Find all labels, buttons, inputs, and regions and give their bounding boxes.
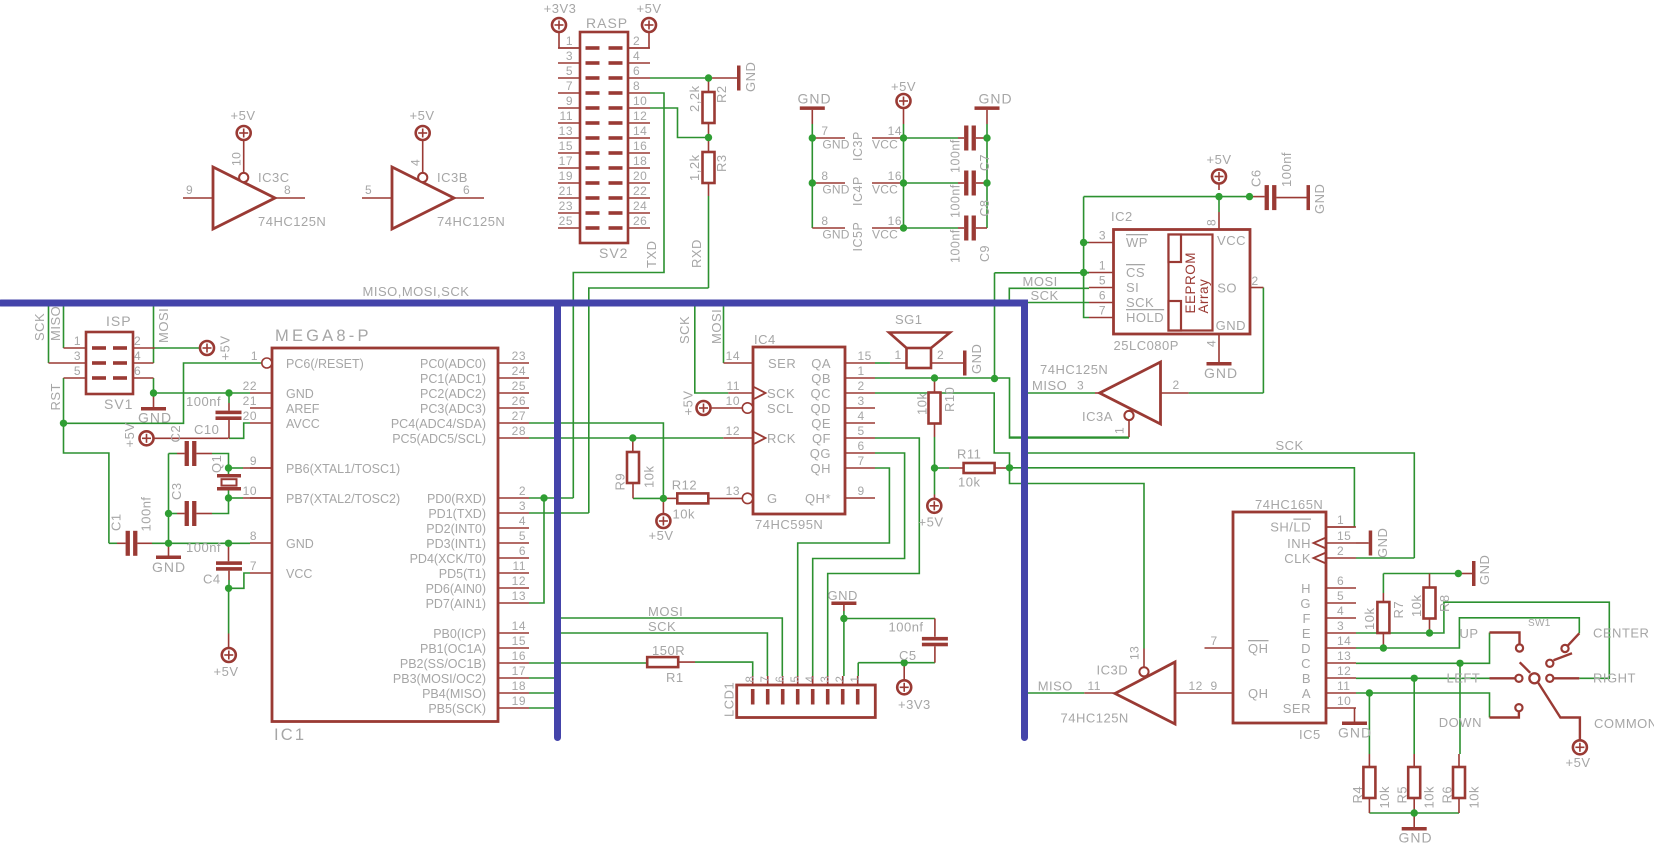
svg-text:Q1: Q1 [209, 455, 224, 473]
svg-text:6: 6 [134, 364, 141, 378]
svg-text:7: 7 [858, 454, 865, 468]
svg-text:4: 4 [519, 514, 526, 528]
svg-text:IC3D: IC3D [1097, 663, 1129, 678]
svg-text:+3V3: +3V3 [544, 1, 577, 16]
svg-text:R11: R11 [957, 447, 981, 462]
svg-text:PC0(ADC0): PC0(ADC0) [420, 357, 486, 371]
svg-text:SCK: SCK [1126, 295, 1154, 310]
svg-text:2: 2 [134, 334, 141, 348]
svg-text:+5V: +5V [218, 336, 233, 361]
svg-text:1,2k: 1,2k [687, 154, 702, 181]
svg-text:3: 3 [820, 676, 832, 683]
svg-text:C9: C9 [978, 245, 992, 262]
svg-text:3: 3 [1337, 619, 1344, 633]
svg-text:100nf: 100nf [186, 540, 221, 555]
svg-text:C8: C8 [978, 200, 992, 217]
svg-text:+5V: +5V [214, 664, 239, 679]
svg-text:C2: C2 [168, 425, 183, 443]
svg-text:12: 12 [1337, 664, 1351, 678]
svg-text:11: 11 [727, 379, 740, 393]
svg-text:4: 4 [409, 159, 423, 166]
svg-text:5: 5 [1337, 589, 1344, 603]
svg-text:13: 13 [726, 484, 740, 498]
svg-text:+5V: +5V [1207, 152, 1232, 167]
svg-text:PB6(XTAL1/TOSC1): PB6(XTAL1/TOSC1) [286, 462, 400, 476]
svg-text:WP: WP [1126, 235, 1148, 250]
svg-text:R12: R12 [672, 478, 697, 493]
svg-text:26: 26 [633, 214, 647, 228]
svg-text:C: C [1301, 656, 1311, 671]
svg-text:4: 4 [858, 409, 865, 423]
svg-text:100nf: 100nf [949, 139, 963, 173]
svg-text:2: 2 [1337, 544, 1344, 558]
svg-text:10: 10 [243, 484, 257, 498]
svg-text:R5: R5 [1395, 786, 1410, 804]
svg-text:25: 25 [559, 214, 573, 228]
svg-text:8: 8 [821, 214, 828, 228]
svg-text:PC3(ADC3): PC3(ADC3) [420, 402, 486, 416]
svg-text:24: 24 [512, 364, 526, 378]
svg-text:IC3P: IC3P [851, 131, 865, 161]
svg-text:SCK: SCK [1276, 438, 1304, 453]
svg-text:SO: SO [1217, 281, 1237, 296]
svg-text:HOLD: HOLD [1126, 310, 1164, 325]
svg-text:MISO: MISO [48, 306, 63, 341]
svg-text:IC5: IC5 [1299, 727, 1321, 742]
svg-text:21: 21 [243, 394, 257, 408]
svg-text:20: 20 [243, 409, 257, 423]
svg-text:100nf: 100nf [949, 229, 963, 263]
svg-text:12: 12 [633, 109, 647, 123]
svg-text:Array: Array [1196, 279, 1211, 314]
svg-text:3: 3 [858, 394, 865, 408]
svg-text:7: 7 [250, 559, 257, 573]
svg-text:QC: QC [811, 386, 832, 401]
svg-text:SI: SI [1126, 280, 1139, 295]
svg-text:UP: UP [1460, 626, 1479, 641]
svg-text:10k: 10k [958, 475, 980, 490]
svg-text:27: 27 [512, 409, 526, 423]
svg-text:R4: R4 [1350, 786, 1365, 804]
svg-text:+5V: +5V [637, 1, 662, 16]
svg-text:28: 28 [512, 424, 526, 438]
svg-text:QF: QF [812, 431, 831, 446]
svg-text:12: 12 [512, 574, 526, 588]
svg-text:G: G [1300, 596, 1311, 611]
svg-text:PC5(ADC5/SCL): PC5(ADC5/SCL) [392, 432, 486, 446]
svg-text:+5V: +5V [891, 79, 916, 94]
svg-text:CENTER: CENTER [1593, 626, 1649, 641]
svg-text:4: 4 [134, 349, 141, 363]
svg-text:23: 23 [559, 199, 573, 213]
svg-text:16: 16 [888, 214, 902, 228]
svg-text:PC4(ADC4/SDA): PC4(ADC4/SDA) [391, 417, 486, 431]
svg-text:PC6(/RESET): PC6(/RESET) [286, 357, 364, 371]
svg-text:COMMON: COMMON [1594, 716, 1654, 731]
svg-text:SCK: SCK [767, 386, 795, 401]
svg-text:PD6(AIN0): PD6(AIN0) [426, 582, 486, 596]
svg-text:VCC: VCC [1217, 233, 1246, 248]
svg-text:2: 2 [1252, 274, 1259, 288]
svg-text:100nf: 100nf [889, 620, 924, 635]
svg-text:5: 5 [1099, 274, 1106, 288]
svg-text:C7: C7 [978, 154, 992, 171]
svg-text:6: 6 [858, 439, 865, 453]
svg-text:10k: 10k [673, 507, 695, 522]
svg-text:17: 17 [559, 154, 573, 168]
svg-text:5: 5 [74, 364, 81, 378]
svg-text:18: 18 [633, 154, 647, 168]
svg-text:13: 13 [512, 589, 526, 603]
svg-text:G: G [767, 491, 778, 506]
svg-text:11: 11 [1088, 679, 1101, 693]
svg-text:MOSI: MOSI [648, 604, 683, 619]
svg-text:16: 16 [512, 649, 526, 663]
svg-text:13: 13 [1128, 646, 1142, 660]
svg-text:F: F [1303, 611, 1311, 626]
svg-text:11: 11 [560, 109, 573, 123]
svg-text:9: 9 [250, 454, 257, 468]
svg-text:14: 14 [726, 349, 740, 363]
svg-text:H: H [1301, 581, 1311, 596]
svg-text:10k: 10k [1409, 595, 1424, 617]
svg-text:20: 20 [633, 169, 647, 183]
svg-text:22: 22 [633, 184, 647, 198]
svg-text:VCC: VCC [872, 183, 898, 197]
svg-text:GND: GND [828, 588, 858, 603]
svg-text:C4: C4 [203, 572, 221, 587]
svg-text:SW1: SW1 [1528, 618, 1551, 629]
svg-text:QG: QG [810, 446, 831, 461]
svg-text:3: 3 [1077, 379, 1084, 393]
svg-text:GND: GND [1204, 365, 1238, 381]
svg-text:9: 9 [858, 484, 865, 498]
svg-text:R9: R9 [613, 473, 628, 491]
svg-text:PD0(RXD): PD0(RXD) [427, 492, 486, 506]
svg-text:19: 19 [559, 169, 573, 183]
svg-text:PB0(ICP): PB0(ICP) [433, 627, 486, 641]
svg-text:PB2(SS/OC1B): PB2(SS/OC1B) [400, 657, 486, 671]
svg-text:9: 9 [1211, 679, 1218, 693]
svg-text:7: 7 [566, 79, 573, 93]
svg-text:SCK: SCK [1031, 288, 1059, 303]
svg-text:IC2: IC2 [1111, 209, 1133, 224]
svg-text:GND: GND [743, 62, 758, 92]
svg-text:QH: QH [1248, 641, 1269, 656]
svg-text:PB7(XTAL2/TOSC2): PB7(XTAL2/TOSC2) [286, 492, 400, 506]
svg-text:8: 8 [1205, 219, 1219, 226]
svg-text:RASP: RASP [586, 15, 628, 31]
svg-text:5: 5 [519, 529, 526, 543]
svg-text:14: 14 [888, 124, 902, 138]
svg-text:10k: 10k [1422, 786, 1437, 808]
svg-text:3: 3 [519, 499, 526, 513]
svg-text:4: 4 [1205, 340, 1219, 347]
svg-text:PD1(TXD): PD1(TXD) [428, 507, 486, 521]
svg-text:100nf: 100nf [139, 496, 154, 531]
svg-text:7: 7 [1099, 304, 1106, 318]
svg-text:GND: GND [1399, 830, 1433, 846]
svg-text:LEFT: LEFT [1447, 671, 1481, 686]
svg-text:10k: 10k [1362, 608, 1377, 630]
svg-text:19: 19 [512, 694, 526, 708]
svg-text:CLK: CLK [1284, 551, 1311, 566]
svg-text:10k: 10k [642, 466, 657, 488]
svg-text:8: 8 [284, 183, 291, 197]
svg-text:6: 6 [519, 544, 526, 558]
svg-text:GND: GND [286, 387, 314, 401]
svg-text:10: 10 [726, 394, 740, 408]
svg-text:GND: GND [798, 91, 832, 107]
svg-text:74HC125N: 74HC125N [437, 214, 505, 229]
svg-text:16: 16 [888, 169, 902, 183]
svg-text:1: 1 [251, 349, 258, 363]
svg-text:25: 25 [512, 379, 526, 393]
svg-text:1: 1 [895, 348, 902, 362]
svg-text:SCK: SCK [677, 316, 692, 344]
svg-text:5: 5 [365, 183, 372, 197]
svg-text:RIGHT: RIGHT [1593, 671, 1636, 686]
svg-text:74HC125N: 74HC125N [1040, 362, 1108, 377]
svg-text:PD4(XCK/T0): PD4(XCK/T0) [410, 552, 486, 566]
svg-text:4: 4 [805, 676, 817, 683]
svg-text:+5V: +5V [919, 515, 944, 530]
svg-text:C10: C10 [194, 422, 219, 437]
svg-text:GND: GND [1216, 318, 1246, 333]
svg-text:SCL: SCL [767, 401, 794, 416]
svg-text:5: 5 [790, 676, 802, 683]
svg-text:13: 13 [1337, 649, 1351, 663]
svg-text:2: 2 [633, 34, 640, 48]
svg-text:6: 6 [775, 676, 787, 683]
svg-text:PB3(MOSI/OC2): PB3(MOSI/OC2) [393, 672, 486, 686]
svg-text:26: 26 [512, 394, 526, 408]
svg-text:INH: INH [1287, 536, 1311, 551]
svg-text:MEGA8-P: MEGA8-P [275, 327, 372, 345]
svg-text:PD7(AIN1): PD7(AIN1) [426, 597, 486, 611]
svg-text:10: 10 [230, 152, 244, 166]
svg-text:74HC125N: 74HC125N [258, 214, 326, 229]
svg-text:15: 15 [512, 634, 526, 648]
svg-text:+5V: +5V [649, 528, 674, 543]
svg-text:2: 2 [1173, 378, 1180, 392]
svg-text:+5V: +5V [1566, 755, 1591, 770]
svg-text:GND: GND [979, 91, 1013, 107]
svg-text:10k: 10k [915, 393, 930, 415]
svg-text:74HC595N: 74HC595N [755, 517, 823, 532]
svg-text:2,2k: 2,2k [687, 85, 702, 112]
svg-text:8: 8 [745, 676, 757, 683]
svg-text:6: 6 [1337, 574, 1344, 588]
svg-text:QH: QH [811, 461, 832, 476]
svg-text:MISO: MISO [1038, 679, 1073, 694]
svg-text:PC2(ADC2): PC2(ADC2) [420, 387, 486, 401]
svg-text:12: 12 [1189, 679, 1203, 693]
svg-text:GND: GND [1338, 725, 1372, 741]
svg-text:LCD1: LCD1 [722, 682, 737, 717]
svg-text:QD: QD [811, 401, 832, 416]
svg-text:SCK: SCK [648, 619, 676, 634]
svg-text:IC4: IC4 [754, 332, 776, 347]
svg-text:AREF: AREF [286, 402, 320, 416]
svg-text:R2: R2 [714, 85, 729, 103]
svg-text:RXD: RXD [689, 239, 704, 268]
svg-text:CS: CS [1126, 265, 1145, 280]
svg-text:IC4P: IC4P [851, 176, 865, 206]
svg-text:8: 8 [633, 79, 640, 93]
svg-text:GND: GND [138, 410, 172, 426]
svg-text:1: 1 [1099, 259, 1106, 273]
svg-text:SER: SER [1283, 701, 1311, 716]
svg-text:RCK: RCK [767, 431, 796, 446]
svg-text:7: 7 [821, 124, 828, 138]
svg-text:IC1: IC1 [274, 726, 306, 744]
svg-text:IC3C: IC3C [258, 170, 290, 185]
svg-text:IC5P: IC5P [851, 222, 865, 252]
svg-text:13: 13 [559, 124, 573, 138]
svg-text:C6: C6 [1249, 169, 1264, 187]
svg-text:9: 9 [566, 94, 573, 108]
svg-text:1: 1 [1337, 513, 1344, 527]
svg-text:PB5(SCK): PB5(SCK) [428, 702, 486, 716]
svg-text:+5V: +5V [231, 108, 256, 123]
svg-text:GND: GND [1477, 555, 1492, 585]
svg-text:8: 8 [821, 169, 828, 183]
svg-text:R6: R6 [1440, 786, 1455, 804]
svg-text:1: 1 [566, 34, 573, 48]
svg-text:1: 1 [858, 364, 865, 378]
svg-text:MISO,MOSI,SCK: MISO,MOSI,SCK [363, 284, 470, 299]
svg-text:QH: QH [1248, 686, 1269, 701]
svg-text:18: 18 [512, 679, 526, 693]
svg-text:5: 5 [858, 424, 865, 438]
svg-text:IC3B: IC3B [437, 170, 468, 185]
svg-text:AVCC: AVCC [286, 417, 320, 431]
svg-text:R1: R1 [666, 670, 684, 685]
svg-text:MOSI: MOSI [156, 308, 171, 343]
svg-text:GND: GND [822, 228, 849, 242]
svg-text:3: 3 [74, 349, 81, 363]
svg-text:6: 6 [633, 64, 640, 78]
svg-text:R8: R8 [1437, 594, 1452, 612]
svg-text:E: E [1302, 626, 1311, 641]
svg-text:PC1(ADC1): PC1(ADC1) [420, 372, 486, 386]
svg-text:VCC: VCC [872, 138, 898, 152]
svg-text:17: 17 [512, 664, 526, 678]
svg-text:MOSI: MOSI [1023, 274, 1058, 289]
svg-text:3: 3 [566, 49, 573, 63]
svg-text:100nf: 100nf [186, 394, 221, 409]
svg-text:11: 11 [1337, 679, 1350, 693]
svg-text:10k: 10k [1377, 786, 1392, 808]
svg-text:22: 22 [243, 379, 257, 393]
svg-text:SG1: SG1 [895, 312, 923, 327]
svg-text:74HC125N: 74HC125N [1061, 711, 1129, 726]
svg-text:1: 1 [850, 676, 862, 683]
svg-text:C1: C1 [109, 513, 124, 531]
svg-text:6: 6 [463, 183, 470, 197]
svg-text:PD3(INT1): PD3(INT1) [426, 537, 486, 551]
svg-text:10k: 10k [1467, 786, 1482, 808]
svg-text:3: 3 [1099, 229, 1106, 243]
svg-text:12: 12 [726, 424, 740, 438]
svg-text:16: 16 [633, 139, 647, 153]
svg-text:14: 14 [512, 619, 526, 633]
svg-text:8: 8 [250, 529, 257, 543]
svg-text:PD2(INT0): PD2(INT0) [426, 522, 486, 536]
svg-text:7: 7 [760, 676, 772, 683]
svg-text:VCC: VCC [286, 567, 312, 581]
svg-text:100nf: 100nf [949, 184, 963, 218]
svg-text:A: A [1302, 686, 1311, 701]
svg-text:+3V3: +3V3 [898, 697, 931, 712]
svg-text:10: 10 [1337, 694, 1351, 708]
svg-text:11: 11 [513, 559, 526, 573]
svg-text:QA: QA [811, 356, 831, 371]
svg-text:2: 2 [937, 348, 944, 362]
svg-text:10: 10 [633, 94, 647, 108]
svg-text:GND: GND [1312, 184, 1327, 214]
svg-text:23: 23 [512, 349, 526, 363]
svg-text:+5V: +5V [410, 108, 435, 123]
svg-text:SCK: SCK [32, 313, 47, 341]
svg-text:74HC165N: 74HC165N [1255, 497, 1323, 512]
svg-text:SV1: SV1 [104, 396, 133, 412]
svg-text:D: D [1301, 641, 1311, 656]
svg-text:+5V: +5V [681, 391, 696, 416]
svg-text:100nf: 100nf [1279, 152, 1294, 187]
svg-text:PB1(OC1A): PB1(OC1A) [420, 642, 486, 656]
svg-text:2: 2 [858, 379, 865, 393]
svg-text:2: 2 [519, 484, 526, 498]
svg-text:150R: 150R [652, 643, 685, 658]
svg-text:7: 7 [1211, 634, 1218, 648]
svg-text:SER: SER [768, 356, 796, 371]
svg-text:R3: R3 [714, 154, 729, 172]
svg-text:SH/LD: SH/LD [1270, 520, 1311, 535]
svg-text:QB: QB [811, 371, 831, 386]
svg-text:R7: R7 [1391, 601, 1406, 619]
svg-text:4: 4 [633, 49, 640, 63]
svg-text:1: 1 [74, 334, 81, 348]
svg-text:GND: GND [286, 537, 314, 551]
svg-text:24: 24 [633, 199, 647, 213]
svg-text:DOWN: DOWN [1439, 715, 1482, 730]
svg-text:PB4(MISO): PB4(MISO) [422, 687, 486, 701]
svg-text:4: 4 [1337, 604, 1344, 618]
svg-text:RST: RST [48, 383, 63, 411]
svg-text:VCC: VCC [872, 228, 898, 242]
svg-text:GND: GND [152, 559, 186, 575]
svg-text:GND: GND [1375, 528, 1390, 558]
svg-text:5: 5 [566, 64, 573, 78]
svg-text:9: 9 [186, 183, 193, 197]
svg-text:PD5(T1): PD5(T1) [439, 567, 486, 581]
svg-text:GND: GND [969, 344, 984, 374]
svg-text:QH*: QH* [805, 491, 831, 506]
svg-text:21: 21 [559, 184, 573, 198]
svg-text:14: 14 [633, 124, 647, 138]
svg-text:14: 14 [1337, 634, 1351, 648]
svg-text:6: 6 [1099, 289, 1106, 303]
svg-text:IC3A: IC3A [1082, 409, 1113, 424]
svg-text:MISO: MISO [1032, 378, 1067, 393]
svg-text:15: 15 [858, 349, 872, 363]
svg-text:15: 15 [1337, 529, 1351, 543]
svg-text:QE: QE [811, 416, 831, 431]
svg-text:B: B [1302, 671, 1311, 686]
svg-text:ISP: ISP [106, 313, 132, 329]
